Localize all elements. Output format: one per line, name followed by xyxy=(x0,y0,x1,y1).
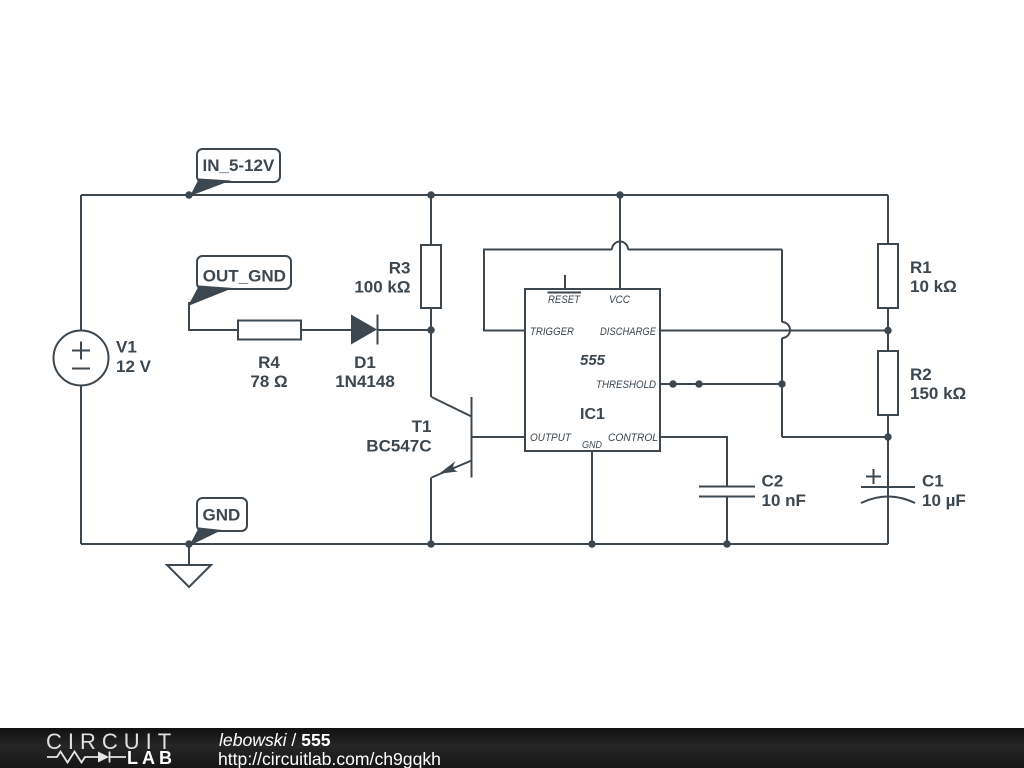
wire: C2 bottom lead xyxy=(726,497,728,545)
svg-text:lebowski / 555: lebowski / 555 xyxy=(219,730,331,750)
svg-text:150 kΩ: 150 kΩ xyxy=(910,384,966,403)
wire: top supply rail xyxy=(81,194,888,196)
wire: R1 top lead xyxy=(887,195,889,244)
label V1 value xyxy=(116,338,152,376)
label T1 value xyxy=(366,417,431,455)
svg-text:100 kΩ: 100 kΩ xyxy=(354,278,410,297)
wire: TRIGGER loop to THRESHOLD net xyxy=(484,242,888,438)
wire: OUT_GND flag to R4 xyxy=(189,302,238,330)
svg-text:IC1: IC1 xyxy=(580,406,605,423)
transistor Q1: T1 BC547C xyxy=(432,397,472,478)
svg-text:CONTROL: CONTROL xyxy=(608,432,658,444)
wire: emitter lead down xyxy=(430,478,432,545)
svg-text:GND: GND xyxy=(203,506,241,525)
wire: base to OUTPUT pin xyxy=(472,436,526,438)
node: ground flag junction xyxy=(185,540,192,547)
svg-text:C1: C1 xyxy=(922,472,944,491)
pin label RESET xyxy=(548,293,582,307)
label C2 value xyxy=(762,472,806,510)
wire: R2 top lead xyxy=(887,331,889,352)
svg-text:12 V: 12 V xyxy=(116,357,152,376)
wire: R4 to D1 xyxy=(301,329,352,331)
svg-text:http://circuitlab.com/ch9gqkh: http://circuitlab.com/ch9gqkh xyxy=(218,749,441,768)
svg-text:IN_5-12V: IN_5-12V xyxy=(203,156,275,175)
node: threshold terminal dots xyxy=(669,380,785,387)
node: R2/C1 junction xyxy=(884,433,891,440)
node: R1/R2 junction xyxy=(884,327,891,334)
flag IN_5-12V xyxy=(190,149,280,196)
ground xyxy=(167,544,211,587)
node: C2 ground junction xyxy=(723,540,730,547)
svg-text:R2: R2 xyxy=(910,365,932,384)
svg-text:DISCHARGE: DISCHARGE xyxy=(600,326,657,338)
svg-text:GND: GND xyxy=(582,440,602,451)
logo squiggle xyxy=(47,752,126,763)
label R2 value xyxy=(910,365,966,403)
wire: IC GND pin lead xyxy=(591,451,593,544)
footer bar xyxy=(0,728,1024,768)
wire: R2 bottom lead xyxy=(887,415,889,437)
svg-text:VCC: VCC xyxy=(609,294,630,306)
node: IC GND junction xyxy=(588,540,595,547)
flag OUT_GND xyxy=(188,256,291,306)
svg-text:C2: C2 xyxy=(762,472,784,491)
wire: left rail upper (V1 top lead) xyxy=(80,195,82,331)
svg-text:10 kΩ: 10 kΩ xyxy=(910,277,957,296)
capacitor C1 polarized xyxy=(861,437,915,503)
voltage source V1 xyxy=(54,331,109,386)
wire: DISCHARGE to R1/R2 junction xyxy=(660,330,888,332)
resistor R2 xyxy=(878,351,898,415)
node: IN flag junction xyxy=(185,191,192,198)
resistor R3 xyxy=(421,245,441,308)
wire: R1 bottom lead xyxy=(887,308,889,331)
svg-text:OUTPUT: OUTPUT xyxy=(530,432,572,444)
resistor R1 xyxy=(878,244,898,308)
svg-text:T1: T1 xyxy=(412,417,432,436)
node: D1/R3/T1 junction xyxy=(427,326,434,333)
wire: THRESHOLD lead xyxy=(660,383,782,385)
svg-text:D1: D1 xyxy=(354,353,376,372)
capacitor C2 xyxy=(699,487,755,497)
IC U1: 555 timer IC1 box xyxy=(525,289,660,451)
svg-text:THRESHOLD: THRESHOLD xyxy=(596,379,656,391)
svg-text:OUT_GND: OUT_GND xyxy=(203,267,286,286)
svg-text:BC547C: BC547C xyxy=(366,436,431,455)
wire: CONTROL to C2 xyxy=(660,437,727,487)
wire: D1 to node xyxy=(378,329,432,331)
svg-text:RESET: RESET xyxy=(548,294,581,306)
resistor R4 xyxy=(238,321,301,340)
svg-text:R1: R1 xyxy=(910,258,932,277)
node: R3 top junction xyxy=(427,191,434,198)
svg-text:1N4148: 1N4148 xyxy=(335,372,395,391)
label R4 value xyxy=(250,353,287,391)
svg-text:555: 555 xyxy=(580,352,606,369)
svg-text:78 Ω: 78 Ω xyxy=(250,372,287,391)
svg-text:LAB: LAB xyxy=(127,748,176,768)
pin stub RESET xyxy=(564,275,566,289)
wire: VCC pin lead xyxy=(619,195,621,289)
label R3 value xyxy=(354,258,410,296)
wire: collector lead up xyxy=(430,330,432,397)
svg-text:R3: R3 xyxy=(389,258,411,277)
label D1 value xyxy=(335,353,395,391)
svg-text:V1: V1 xyxy=(116,338,137,357)
wire: bottom ground rail xyxy=(81,543,888,545)
wire: R3 top lead xyxy=(430,195,432,245)
svg-text:R4: R4 xyxy=(258,353,280,372)
diode D1 xyxy=(351,315,378,345)
wire: R3 bottom lead xyxy=(430,308,432,330)
svg-text:TRIGGER: TRIGGER xyxy=(530,326,574,338)
wire: left rail lower (V1 bottom lead) xyxy=(80,385,82,544)
svg-text:10 nF: 10 nF xyxy=(762,491,806,510)
node: VCC top junction xyxy=(616,191,623,198)
label C1 value xyxy=(922,472,966,510)
label R1 value xyxy=(910,258,957,296)
flag GND xyxy=(189,498,247,546)
svg-text:10 µF: 10 µF xyxy=(922,491,966,510)
node: emitter ground junction xyxy=(427,540,434,547)
wire: C1 bottom lead xyxy=(887,497,889,545)
